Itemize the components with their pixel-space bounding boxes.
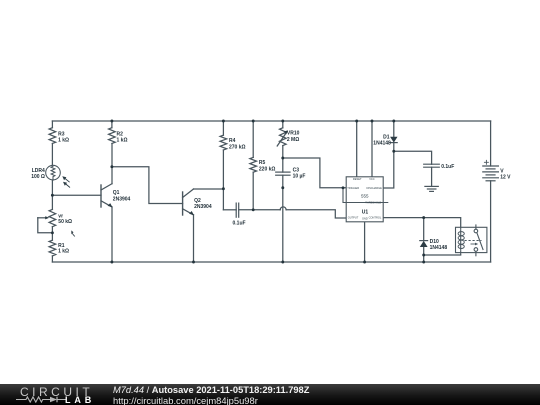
svg-text:555: 555 — [361, 193, 369, 198]
svg-text:50 kΩ: 50 kΩ — [58, 219, 72, 225]
svg-text:2 MΩ: 2 MΩ — [287, 137, 299, 143]
svg-text:THRESHOLD: THRESHOLD — [365, 200, 381, 204]
svg-text:U1: U1 — [362, 209, 369, 215]
svg-text:0.1uF: 0.1uF — [233, 220, 246, 226]
svg-text:1 kΩ: 1 kΩ — [117, 138, 128, 144]
svg-text:VR10: VR10 — [287, 130, 300, 136]
svg-text:CONTROL: CONTROL — [369, 216, 382, 220]
svg-text:0.1uF: 0.1uF — [441, 164, 454, 170]
svg-text:1 kΩ: 1 kΩ — [58, 248, 69, 254]
svg-text:1N4148: 1N4148 — [373, 141, 391, 147]
svg-text:OUTPUT: OUTPUT — [348, 216, 359, 220]
svg-text:220 kΩ: 220 kΩ — [259, 167, 276, 173]
svg-text:DISCHARGE: DISCHARGE — [366, 186, 382, 190]
svg-text:270 kΩ: 270 kΩ — [229, 144, 246, 150]
svg-text:D1: D1 — [383, 134, 390, 140]
svg-text:12 V: 12 V — [500, 175, 511, 181]
svg-text:1N4148: 1N4148 — [430, 245, 448, 251]
svg-text:1 kΩ: 1 kΩ — [58, 138, 69, 144]
svg-text:TRIGGER: TRIGGER — [347, 186, 359, 190]
svg-text:Q1: Q1 — [113, 190, 120, 196]
svg-text:2N3904: 2N3904 — [113, 197, 131, 203]
svg-text:2N3904: 2N3904 — [194, 204, 212, 210]
svg-text:GND: GND — [362, 217, 368, 221]
svg-text:Q2: Q2 — [194, 198, 201, 204]
svg-text:RESET: RESET — [353, 177, 362, 181]
svg-text:R4: R4 — [229, 138, 236, 144]
svg-text:100 Ω: 100 Ω — [31, 174, 45, 180]
svg-text:10 µF: 10 µF — [293, 174, 306, 180]
svg-text:VCC: VCC — [369, 177, 375, 181]
svg-text:R5: R5 — [259, 160, 266, 166]
